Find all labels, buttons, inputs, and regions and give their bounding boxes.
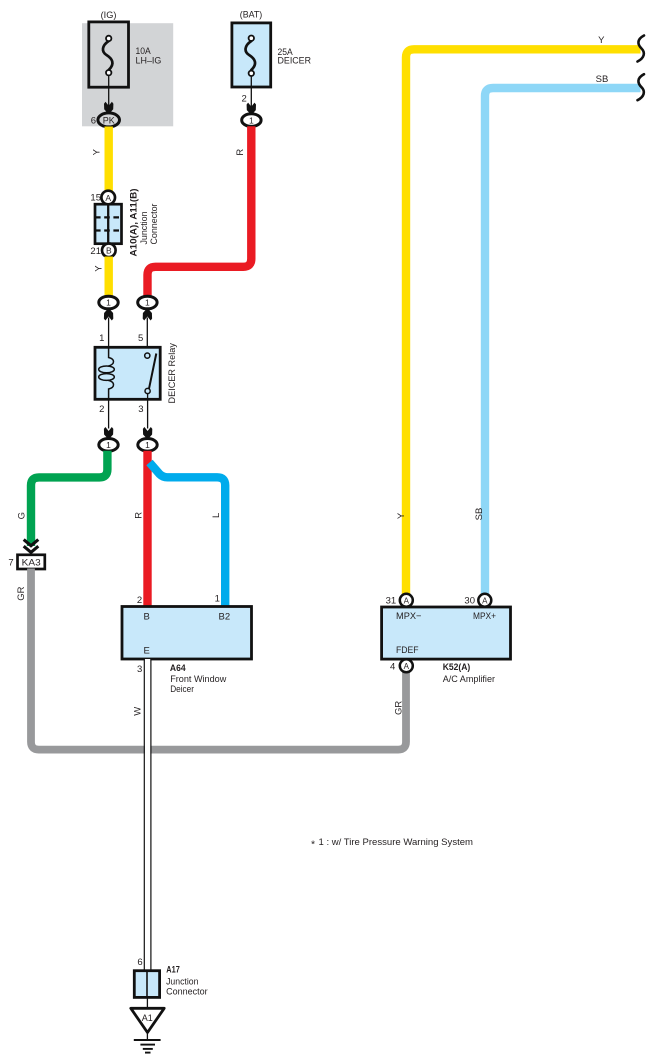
svg-text:K52(A): K52(A): [443, 662, 471, 673]
svg-text:1: 1: [215, 593, 220, 604]
arrow up to oval (pin 5): [143, 310, 152, 321]
svg-text:A: A: [404, 662, 410, 671]
svg-text:Y: Y: [396, 512, 407, 519]
svg-text:1: 1: [145, 298, 150, 308]
svg-text:1 : w/ Tire Pressure Warning S: 1 : w/ Tire Pressure Warning System: [319, 837, 474, 848]
connector oval PK: [98, 113, 120, 127]
svg-text:1: 1: [106, 440, 111, 450]
svg-text:7: 7: [8, 557, 13, 568]
wire R (red) relay to A64: [143, 451, 151, 607]
svg-text:MPX−: MPX−: [396, 611, 422, 622]
wire R (red) from BAT down and left to relay: [148, 126, 252, 296]
svg-text:G: G: [17, 512, 28, 519]
svg-text:E: E: [144, 645, 150, 656]
wire Y (yellow) upper segment: [105, 127, 113, 192]
svg-text:Connector: Connector: [166, 986, 208, 997]
svg-text:6: 6: [91, 116, 96, 127]
arrow down: [104, 102, 113, 113]
svg-text:GR: GR: [393, 701, 404, 715]
svg-text:A: A: [482, 596, 488, 605]
svg-text:(IG): (IG): [101, 10, 117, 21]
svg-text:1: 1: [106, 298, 111, 308]
arrow down (pin 2): [104, 427, 113, 438]
svg-text:Y: Y: [94, 265, 105, 272]
connector oval 1 (relay bottom-right): [138, 439, 157, 452]
pin 30 circle A: [478, 594, 491, 607]
svg-text:SB: SB: [474, 508, 485, 521]
svg-text:2: 2: [99, 404, 104, 415]
DEICER relay box: [95, 347, 160, 399]
svg-text:1: 1: [249, 115, 254, 125]
svg-text:SB: SB: [596, 74, 609, 85]
K52 A/C Amplifier box: [382, 607, 511, 659]
arrow up to oval (pin 1): [104, 310, 113, 321]
svg-text:Y: Y: [598, 35, 605, 46]
svg-text:15: 15: [90, 192, 101, 203]
svg-text:A64: A64: [170, 663, 186, 674]
break squiggle SB: [638, 74, 645, 100]
A17 junction connector: [134, 971, 159, 998]
svg-text:A10(A), A11(B): A10(A), A11(B): [129, 189, 140, 257]
svg-text:DEICER: DEICER: [278, 56, 312, 67]
svg-text:MPX+: MPX+: [473, 611, 496, 622]
svg-text:A17: A17: [166, 964, 180, 975]
svg-text:6: 6: [137, 957, 142, 968]
svg-text:*: *: [311, 838, 315, 850]
pin 1 line: [108, 318, 110, 358]
shield gray box (IG fuse area): [82, 23, 173, 126]
wire GR (gray) KA3 to A/C amplifier: [31, 569, 406, 750]
svg-text:A: A: [105, 193, 111, 203]
svg-text:B2: B2: [219, 611, 231, 622]
svg-text:(BAT): (BAT): [240, 10, 263, 21]
junction connector A10(A), A11(B): [95, 204, 122, 244]
pin 5 line: [146, 318, 148, 354]
svg-text:R: R: [134, 512, 145, 519]
svg-text:PK: PK: [103, 115, 115, 125]
pin 15 circle A: [101, 191, 115, 205]
fuse (BAT) 25A DEICER: [232, 10, 311, 88]
svg-text:1: 1: [145, 440, 150, 450]
svg-text:B: B: [106, 246, 112, 256]
svg-text:21: 21: [90, 246, 101, 257]
connector oval 1 (BAT): [242, 114, 261, 127]
break squiggle Y: [638, 36, 645, 62]
wire SB (light blue) right, from top to K52: [485, 88, 641, 594]
pin 31 circle A: [400, 594, 413, 607]
svg-text:4: 4: [390, 662, 395, 673]
svg-text:A/C Amplifier: A/C Amplifier: [443, 674, 495, 685]
svg-text:31: 31: [386, 596, 397, 607]
wire L (blue) branch to A64 B2: [150, 463, 226, 607]
A64 Front Window Deicer box: [122, 607, 252, 660]
svg-text:FDEF: FDEF: [396, 645, 419, 656]
connector oval 1 (relay top-left): [99, 296, 118, 309]
fuse (IG) 10A LH-IG: [89, 10, 162, 87]
svg-text:3: 3: [137, 664, 142, 675]
relay switch: [149, 354, 156, 389]
connector oval 1 (relay bottom-left): [99, 439, 118, 452]
pin 21 circle B: [102, 244, 116, 258]
svg-text:L: L: [211, 513, 222, 518]
svg-text:W: W: [133, 707, 144, 716]
connector oval 1 (relay top-right): [138, 296, 157, 309]
svg-text:R: R: [235, 149, 246, 156]
svg-text:KA3: KA3: [22, 558, 41, 569]
wire fuse to connector 1: [250, 76, 252, 107]
svg-text:DEICER Relay: DEICER Relay: [167, 343, 178, 404]
svg-text:2: 2: [137, 595, 142, 606]
svg-text:30: 30: [464, 596, 475, 607]
svg-text:5: 5: [138, 333, 143, 344]
wire W (white) A64 E to A17, over gray wire: [145, 659, 151, 971]
pin 4 circle A: [400, 659, 413, 672]
svg-text:A1: A1: [142, 1013, 153, 1023]
pin 2 line: [108, 399, 110, 428]
svg-text:B: B: [144, 611, 150, 622]
relay coil: [108, 347, 114, 366]
ground A1: [146, 997, 148, 1008]
wire Y (yellow) lower segment: [105, 257, 113, 297]
svg-text:LH–IG: LH–IG: [136, 55, 162, 66]
pin 3 line: [147, 394, 149, 429]
svg-text:Deicer: Deicer: [170, 684, 194, 695]
svg-text:Connector: Connector: [149, 204, 160, 245]
svg-text:2: 2: [242, 93, 247, 104]
arrow down: [247, 103, 256, 114]
double chevron into KA3: [24, 540, 39, 553]
svg-text:3: 3: [138, 404, 143, 415]
arrow down (pin 3): [143, 427, 152, 438]
svg-text:Y: Y: [92, 148, 103, 155]
KA3 box: [18, 555, 45, 569]
svg-text:A: A: [404, 596, 410, 605]
wire G (green) to KA3: [31, 451, 107, 546]
svg-text:1: 1: [99, 333, 104, 344]
svg-text:GR: GR: [16, 586, 27, 600]
wire Y (yellow) right, from top to K52: [406, 49, 641, 594]
wire fuse to connector PK: [108, 76, 110, 107]
